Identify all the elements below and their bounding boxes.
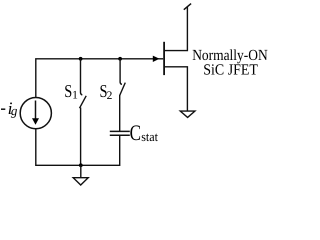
capacitor Cstat bottom plate <box>110 134 130 136</box>
svg-text:C: C <box>130 120 141 145</box>
svg-text:stat: stat <box>141 129 158 144</box>
transistor JFET channel bar <box>163 42 165 75</box>
svg-text:g: g <box>11 103 18 118</box>
wire: JFET drain horizontal + vertical up <box>164 7 187 51</box>
node: junction dot S2 top <box>118 57 122 61</box>
current source I1 arrow <box>35 101 37 120</box>
wire: ground stub below bottom junction <box>80 165 82 177</box>
wire: S1 lower terminal to bottom net <box>80 108 82 166</box>
wire: S1 upper terminal with contact foot <box>81 59 83 95</box>
current source I1 circle <box>20 98 51 129</box>
node: bottom junction dot <box>79 163 83 167</box>
wire: JFET source horizontal + vertical down to ground <box>164 67 187 111</box>
wire: top gate net horizontal + left branch vertical <box>36 59 163 98</box>
drain continuation tick <box>184 4 191 10</box>
ground symbol at bottom net <box>73 178 88 185</box>
svg-text:S: S <box>64 81 72 101</box>
svg-text:2: 2 <box>107 90 113 102</box>
JFET gate arrowhead <box>153 56 160 62</box>
wire: below current source, bottom net horizontal, up to capacitor <box>36 129 120 166</box>
wire: S2 lower terminal down to capacitor <box>119 95 121 131</box>
capacitor Cstat top plate <box>110 130 130 132</box>
svg-text:SiC JFET: SiC JFET <box>203 62 258 79</box>
label -ig <box>1 108 5 110</box>
wire: S2 upper terminal with contact foot <box>120 59 122 85</box>
node: junction dot S1 top <box>79 57 83 61</box>
switch S1 blade <box>80 96 87 108</box>
ground symbol at JFET source <box>180 111 195 117</box>
svg-text:1: 1 <box>72 90 78 102</box>
switch S2 blade <box>120 83 126 96</box>
